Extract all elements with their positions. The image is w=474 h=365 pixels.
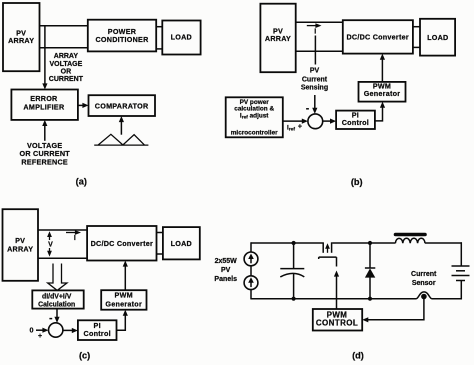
svg-text:I: I — [74, 235, 76, 242]
svg-text:OR: OR — [61, 68, 72, 75]
PV array box (c) — [3, 209, 39, 281]
svg-text:PV: PV — [310, 67, 320, 74]
label voltage or current reference (a) — [19, 141, 70, 166]
wire PV array to DC/DC converter bottom (b) — [296, 50, 343, 52]
inductor L1 core bar (d) — [394, 233, 427, 237]
svg-text:Control: Control — [342, 118, 369, 127]
wire power conditioner to load bottom (a) — [156, 48, 162, 50]
wire PV array to DC/DC converter top (b) — [296, 21, 343, 23]
label PV current sensing (b) — [301, 67, 328, 91]
svg-text:(c): (c) — [79, 351, 90, 361]
PWM control box (d) — [313, 309, 362, 331]
svg-text:COMPARATOR: COMPARATOR — [95, 101, 149, 110]
svg-text:Generator: Generator — [105, 299, 142, 308]
summing junction circle (c) — [49, 323, 63, 337]
minus sign at summing junction (c) — [49, 318, 52, 320]
svg-text:ARRAY: ARRAY — [8, 36, 34, 45]
voltage measurement double arrow V (c) — [47, 231, 53, 256]
PWM generator box (c) — [101, 290, 146, 310]
svg-text:+: + — [298, 123, 302, 130]
power conditioner box (a) — [88, 20, 156, 52]
svg-text:VOLTAGE: VOLTAGE — [50, 61, 83, 68]
label 2x55W PV panels (d) — [214, 258, 237, 283]
triangle waveform baseline (a) — [94, 144, 148, 146]
load box (b) — [420, 19, 455, 56]
arrow reference to error amplifier (a) — [42, 120, 47, 141]
triangle waveform peak 1 (a) — [98, 134, 123, 145]
current source I1 (d) — [244, 252, 258, 266]
svg-text:PWM: PWM — [115, 291, 133, 300]
node dot diode top (d) — [368, 241, 372, 245]
arrow current sensing into summing junction (b) — [312, 95, 317, 114]
current sensor node dot (d) — [421, 294, 427, 300]
label array voltage or current (a) — [49, 53, 84, 83]
current sensor bump (d) — [416, 292, 432, 299]
svg-text:CONTROL: CONTROL — [316, 319, 358, 328]
arrow PWM generator to DC/DC converter (c) — [123, 261, 128, 291]
current source I2 (d) — [244, 276, 258, 290]
node dot diode bottom (d) — [368, 297, 372, 301]
MOSFET switch Q1 (d) — [319, 242, 337, 266]
svg-text:Iref adjust: Iref adjust — [240, 112, 269, 120]
svg-text:Calculation: Calculation — [38, 302, 75, 309]
svg-text:(d): (d) — [352, 351, 364, 361]
summing junction circle (b) — [308, 114, 323, 129]
diode D1 (d) — [365, 243, 375, 299]
current direction arrow I (b) — [307, 23, 322, 35]
svg-text:DC/DC Converter: DC/DC Converter — [346, 32, 408, 41]
arrow summing junction to PI control (c) — [63, 328, 78, 333]
svg-text:CONDITIONER: CONDITIONER — [95, 35, 149, 44]
wire DC/DC converter to load bottom (c) — [157, 253, 163, 255]
arrow triangle wave to comparator (a) — [119, 116, 124, 135]
wire PV array to power conditioner bottom (a) — [40, 47, 89, 49]
svg-text:dI/dV+I/V: dI/dV+I/V — [42, 294, 72, 301]
DC/DC converter box (b) — [343, 20, 413, 53]
wire PI control to PWM generator (c) — [117, 310, 128, 331]
svg-text:0: 0 — [29, 325, 33, 334]
arrow error amplifier to comparator (a) — [78, 103, 89, 108]
svg-text:V: V — [48, 241, 53, 248]
svg-text:Current: Current — [411, 271, 437, 278]
svg-text:+: + — [38, 333, 42, 340]
arrow summing junction to PI control (b) — [323, 119, 336, 124]
svg-text:ARRAY: ARRAY — [54, 53, 79, 60]
PI control box (b) — [336, 111, 375, 130]
load box (c) — [163, 227, 200, 259]
wire current sensor to PWM control (d) — [362, 298, 424, 322]
inductor L1 windings (d) — [395, 238, 425, 243]
svg-text:Generator: Generator — [364, 89, 401, 98]
svg-text:REFERENCE: REFERENCE — [21, 157, 68, 166]
wire PV array to DC/DC converter bottom (c) — [38, 257, 87, 259]
DC/DC converter box (c) — [87, 226, 156, 261]
PI control box (c) — [78, 320, 117, 340]
svg-text:I: I — [314, 29, 316, 36]
svg-text:CURRENT: CURRENT — [49, 76, 84, 83]
wire PV array to DC/DC converter top (c) — [38, 229, 87, 231]
svg-text:Control: Control — [84, 329, 111, 338]
svg-text:LOAD: LOAD — [171, 33, 192, 42]
svg-text:DC/DC Converter: DC/DC Converter — [91, 239, 153, 248]
wire PV array to power conditioner top (a) — [40, 25, 89, 27]
node dot capacitor bottom (d) — [292, 297, 296, 301]
calculation box (c) — [32, 290, 83, 308]
wire top rail (d) — [251, 242, 462, 244]
current direction arrow I (c) — [66, 230, 81, 242]
svg-text:Sensor: Sensor — [412, 280, 436, 287]
battery B1 (d) — [452, 266, 470, 281]
PV array box (a) — [3, 3, 40, 71]
svg-text:AMPLIFIER: AMPLIFIER — [23, 102, 65, 111]
error amplifier box (a) — [11, 90, 78, 120]
svg-text:PV: PV — [221, 267, 231, 274]
wire DC/DC converter to load top (b) — [413, 26, 420, 28]
svg-text:Iref: Iref — [287, 124, 295, 132]
svg-text:microcontroller: microcontroller — [231, 130, 278, 137]
wire DC/DC converter to load top (c) — [157, 232, 163, 234]
microcontroller box (b) — [226, 97, 283, 137]
hollow arrow V and I to calculation block (c) — [48, 264, 67, 291]
capacitor C1 (d) — [280, 243, 304, 299]
svg-text:Panels: Panels — [214, 276, 237, 283]
wire PI control to PWM generator (b) — [375, 102, 385, 121]
arrow calculation to summing junction (c) — [54, 309, 59, 323]
battery wire stub top (d) — [460, 242, 462, 266]
arrow PWM generator to DC/DC converter (b) — [380, 54, 385, 82]
node dot capacitor top (d) — [292, 241, 296, 245]
svg-text:LOAD: LOAD — [171, 239, 192, 248]
wire current sensing tap (b) — [314, 36, 316, 65]
triangle waveform peak 2 (a) — [123, 135, 145, 145]
wire power conditioner to load top (a) — [156, 26, 162, 28]
svg-text:ARRAY: ARRAY — [7, 244, 33, 253]
wire DC/DC converter to load bottom (b) — [413, 46, 420, 48]
svg-text:LOAD: LOAD — [427, 33, 448, 42]
svg-text:(a): (a) — [76, 177, 87, 187]
svg-text:(b): (b) — [351, 177, 363, 187]
arrow gate drive from PWM control (d) — [334, 271, 339, 310]
wire left rail segments (d) — [250, 242, 252, 299]
arrow Iref from microcontroller to summing junction (b) — [283, 119, 308, 124]
battery wire stub bottom (d) — [460, 281, 462, 300]
svg-text:Current: Current — [302, 76, 328, 83]
minus sign at summing junction (b) — [306, 108, 309, 110]
PV array box (b) — [260, 4, 295, 73]
arrow zero to summing junction (c) — [36, 328, 49, 333]
wire array voltage sense arrow down to error amplifier (a) — [42, 26, 47, 90]
wire bottom rail (d) — [251, 298, 462, 300]
comparator box (a) — [89, 95, 156, 116]
label current sensor (d) — [411, 271, 437, 287]
load box (a) — [162, 21, 200, 55]
svg-text:ARRAY: ARRAY — [265, 34, 291, 43]
svg-text:2x55W: 2x55W — [215, 258, 238, 265]
svg-text:Sensing: Sensing — [301, 84, 328, 91]
PWM generator box (b) — [359, 82, 406, 102]
